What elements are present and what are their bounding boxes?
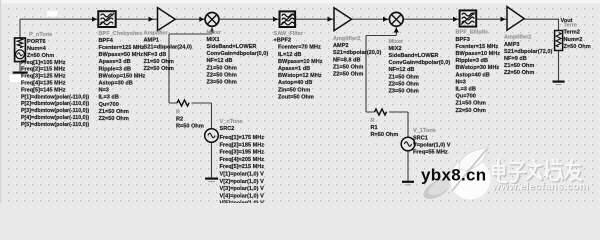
svg-text:Z2=50 Ohm: Z2=50 Ohm	[99, 116, 129, 122]
svg-text:BWpass=10 MHz: BWpass=10 MHz	[456, 51, 501, 57]
svg-text:Term: Term	[564, 23, 577, 29]
svg-text:S21=dbpolar(20,0): S21=dbpolar(20,0)	[333, 50, 381, 56]
svg-text:Freq[1]=105 MHz: Freq[1]=105 MHz	[21, 60, 66, 66]
svg-text:Qu=700: Qu=700	[456, 94, 476, 100]
svg-text:SAW_Filter: SAW_Filter	[274, 31, 304, 37]
svg-text:Freq[3]=195 MHz: Freq[3]=195 MHz	[220, 150, 265, 156]
svg-text:Zout=50 Ohm: Zout=50 Ohm	[278, 94, 314, 100]
svg-text:Z2=50 Ohm: Z2=50 Ohm	[456, 108, 486, 114]
svg-text:Zin=50 Ohm: Zin=50 Ohm	[278, 87, 310, 93]
svg-text:Qu=700: Qu=700	[99, 102, 119, 108]
svg-text:+BPF2: +BPF2	[274, 38, 292, 44]
svg-text:P_nTone: P_nTone	[29, 32, 52, 38]
svg-text:P[4]=dbmtow(polar(-110,0)): P[4]=dbmtow(polar(-110,0))	[21, 115, 89, 121]
svg-text:Astop=40 dB: Astop=40 dB	[278, 80, 312, 86]
svg-text:Fcenter=15 MHz: Fcenter=15 MHz	[456, 44, 499, 50]
svg-text:NF=12 dB: NF=12 dB	[207, 58, 233, 64]
svg-text:P[2]=dbmtow(polar(-110,0)): P[2]=dbmtow(polar(-110,0))	[21, 101, 89, 107]
svg-text:NF=3 dB: NF=3 dB	[144, 52, 167, 58]
svg-text:V_nTone: V_nTone	[220, 119, 243, 125]
svg-text:R=50 Ohm: R=50 Ohm	[176, 123, 204, 129]
svg-text:Freq[2]=185 MHz: Freq[2]=185 MHz	[220, 142, 265, 148]
svg-text:Z1=50 Ohm: Z1=50 Ohm	[207, 65, 237, 71]
svg-text:N=3: N=3	[99, 88, 109, 94]
svg-text:Z1=50 Ohm: Z1=50 Ohm	[456, 101, 486, 107]
svg-text:Freq=55 MHz: Freq=55 MHz	[413, 150, 448, 156]
svg-text:Z2=50 Ohm: Z2=50 Ohm	[333, 72, 363, 78]
svg-text:R: R	[176, 110, 180, 116]
svg-text:BPF_Elliptic: BPF_Elliptic	[456, 30, 489, 36]
svg-text:V=polar(1,0) V: V=polar(1,0) V	[413, 142, 451, 148]
svg-text:V[4]=polar(1,0) V: V[4]=polar(1,0) V	[220, 193, 265, 199]
svg-text:R: R	[371, 118, 375, 124]
svg-text:S21=dbpolar(72,0): S21=dbpolar(72,0)	[504, 49, 552, 55]
svg-text:AMP3: AMP3	[504, 42, 520, 48]
svg-text:Z2=50 Ohm: Z2=50 Ohm	[144, 66, 174, 72]
svg-text:Z2=50 Ohm: Z2=50 Ohm	[504, 70, 534, 76]
svg-text:Mixer: Mixer	[389, 39, 404, 45]
svg-text:AMP2: AMP2	[333, 43, 349, 49]
svg-text:R1: R1	[371, 125, 378, 131]
svg-text:BPF3: BPF3	[456, 37, 470, 43]
svg-text:BPF_Chebyshev: BPF_Chebyshev	[99, 31, 144, 37]
svg-text:AMP1: AMP1	[144, 38, 160, 44]
svg-text:Apass=1 dB: Apass=1 dB	[278, 66, 310, 72]
svg-text:Apass=3 dB: Apass=3 dB	[99, 59, 131, 65]
svg-text:P[1]=dbmtow(polar(-110,0)): P[1]=dbmtow(polar(-110,0))	[21, 94, 89, 100]
svg-text:Freq[1]=175 MHz: Freq[1]=175 MHz	[220, 135, 265, 141]
svg-text:Z1=50 Ohm: Z1=50 Ohm	[333, 64, 363, 70]
svg-text:Freq[3]=125 MHz: Freq[3]=125 MHz	[21, 74, 66, 80]
svg-text:Z1=50 Ohm: Z1=50 Ohm	[144, 59, 174, 65]
svg-text:Z1=50 Ohm: Z1=50 Ohm	[99, 109, 129, 115]
svg-text:Z=50 Ohm: Z=50 Ohm	[27, 53, 54, 59]
svg-text:Z2=50 Ohm: Z2=50 Ohm	[389, 81, 419, 87]
svg-text:R=50 Ohm: R=50 Ohm	[371, 132, 399, 138]
svg-text:Freq[4]=205 MHz: Freq[4]=205 MHz	[220, 157, 265, 163]
svg-text:Z2=50 Ohm: Z2=50 Ohm	[207, 72, 237, 78]
svg-text:BPF4: BPF4	[99, 38, 114, 44]
svg-text:Z1=50 Ohm: Z1=50 Ohm	[504, 63, 534, 69]
svg-text:Astop=30 dB: Astop=30 dB	[99, 81, 133, 87]
svg-text:SideBand=LOWER: SideBand=LOWER	[207, 44, 257, 50]
svg-text:BWpass=10 MHz: BWpass=10 MHz	[278, 59, 323, 65]
svg-text:Z3=50 Ohm: Z3=50 Ohm	[207, 80, 237, 86]
svg-text:Astop=40 dB: Astop=40 dB	[456, 72, 490, 78]
svg-text:IL=3 dB: IL=3 dB	[99, 95, 119, 101]
svg-text:SRC1: SRC1	[413, 135, 428, 141]
svg-text:Freq[4]=135 MHz: Freq[4]=135 MHz	[21, 81, 66, 87]
svg-text:Amplifier: Amplifier	[144, 31, 169, 37]
svg-text:V[3]=polar(1,0) V: V[3]=polar(1,0) V	[220, 186, 265, 192]
svg-text:Mixer: Mixer	[207, 30, 222, 36]
svg-text:Fcenter=125 MHz: Fcenter=125 MHz	[99, 45, 145, 51]
svg-text:S21=dbpolar(24,0): S21=dbpolar(24,0)	[144, 45, 192, 51]
svg-text:IL=12 dB: IL=12 dB	[278, 52, 301, 58]
svg-text:Z1=50 Ohm: Z1=50 Ohm	[389, 74, 419, 80]
svg-text:NF=9 dB: NF=9 dB	[504, 56, 527, 62]
svg-text:ybx8.cn: ybx8.cn	[421, 166, 486, 185]
svg-text:Num=2: Num=2	[564, 37, 583, 43]
svg-text:R2: R2	[176, 116, 183, 122]
svg-text:BWstop=30 MHz: BWstop=30 MHz	[456, 65, 500, 71]
svg-text:NF=12 dB: NF=12 dB	[389, 67, 415, 73]
svg-text:Freq[5]=145 MHz: Freq[5]=145 MHz	[21, 87, 66, 93]
svg-text:Amplifier2: Amplifier2	[504, 35, 531, 41]
svg-text:Freq[5]=215 MHz: Freq[5]=215 MHz	[220, 164, 265, 170]
svg-text:V[1]=polar(1,0) V: V[1]=polar(1,0) V	[220, 172, 265, 178]
svg-text:MIX1: MIX1	[207, 37, 220, 43]
svg-text:ConvGain=dbpolar(0,0): ConvGain=dbpolar(0,0)	[389, 60, 451, 66]
svg-text:SRC2: SRC2	[220, 126, 235, 132]
svg-text:Fcenter=70 MHz: Fcenter=70 MHz	[278, 45, 321, 51]
svg-text:Z3=50 Ohm: Z3=50 Ohm	[389, 89, 419, 95]
svg-text:P[5]=dbmtow(polar(-110,0)): P[5]=dbmtow(polar(-110,0))	[21, 122, 89, 128]
svg-text:Ripple=3 dB: Ripple=3 dB	[456, 58, 488, 64]
svg-text:IL=3 dB: IL=3 dB	[456, 87, 476, 93]
svg-text:V[2]=polar(1,0) V: V[2]=polar(1,0) V	[220, 179, 265, 185]
svg-text:V[5]=polar(1,0) V: V[5]=polar(1,0) V	[220, 201, 265, 203]
svg-text:BWstop=150 MHz: BWstop=150 MHz	[99, 73, 146, 79]
svg-text:BWpass=50 MHz: BWpass=50 MHz	[99, 52, 144, 58]
svg-text:Ripple=3 dB: Ripple=3 dB	[99, 66, 131, 72]
svg-text:Amplifier2: Amplifier2	[333, 36, 360, 42]
svg-text:ConvGain=dbpolar(0,0): ConvGain=dbpolar(0,0)	[207, 51, 269, 57]
svg-text:BWstop=12 MHz: BWstop=12 MHz	[278, 73, 322, 79]
svg-text:Z=50 Ohm: Z=50 Ohm	[564, 44, 591, 50]
svg-text:SideBand=LOWER: SideBand=LOWER	[389, 53, 439, 59]
svg-text:Term2: Term2	[564, 30, 580, 36]
svg-text:P[3]=dbmtow(polar(-110,0)): P[3]=dbmtow(polar(-110,0))	[21, 108, 89, 114]
svg-text:PORT6: PORT6	[27, 39, 46, 45]
svg-text:Freq[2]=115 MHz: Freq[2]=115 MHz	[21, 67, 66, 73]
svg-text:MIX2: MIX2	[389, 46, 402, 52]
svg-text:NF=8.8 dB: NF=8.8 dB	[333, 57, 361, 63]
svg-text:N=3: N=3	[456, 79, 466, 85]
svg-text:V_1Tone: V_1Tone	[413, 128, 436, 134]
svg-text:Num=4: Num=4	[27, 46, 47, 52]
